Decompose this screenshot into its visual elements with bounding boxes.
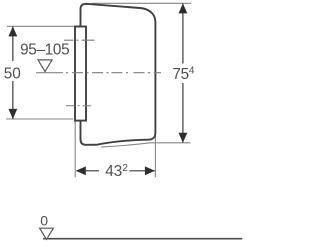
svg-text:95–105: 95–105 [20, 41, 69, 58]
svg-text:0: 0 [40, 213, 48, 229]
svg-text:50: 50 [4, 65, 21, 82]
svg-text:754: 754 [172, 66, 194, 84]
svg-text:432: 432 [105, 163, 128, 180]
